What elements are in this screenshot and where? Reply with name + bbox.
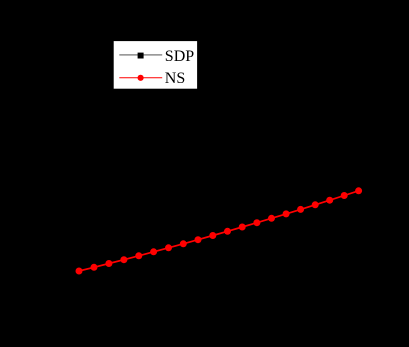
NS data series markers [76, 187, 363, 274]
legend SDP square marker [138, 53, 144, 59]
legend NS line [119, 77, 162, 79]
NS data series line [79, 191, 359, 271]
svg-text:SDP: SDP [165, 48, 194, 65]
legend SDP line [119, 54, 162, 56]
legend NS circle marker [138, 75, 144, 81]
svg-text:NS: NS [165, 70, 185, 87]
legend box [113, 40, 198, 89]
